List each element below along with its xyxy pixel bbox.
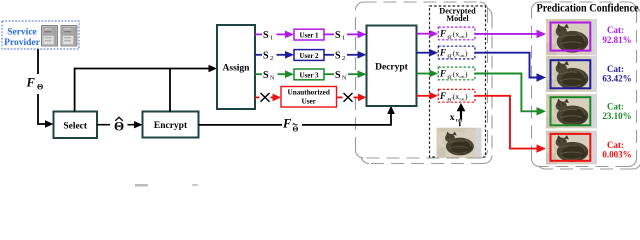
- arrowhead into Select: [45, 120, 54, 127]
- model row 3 box F_Theta-hat-N(x_cat): [438, 67, 475, 81]
- wire: Encrypt right to Decrypt bottom: [199, 113, 392, 125]
- server icon 2: [61, 26, 77, 47]
- prediction photo 3: [546, 94, 597, 128]
- box Decrypt: [367, 26, 417, 107]
- prediction photo 1: [546, 19, 597, 55]
- cropped caption remnant: [135, 184, 148, 187]
- box User 3: [294, 69, 324, 80]
- svg-text:F: F: [439, 48, 446, 58]
- svg-text:Service: Service: [7, 28, 37, 38]
- svg-text:23.10%: 23.10%: [602, 111, 631, 121]
- svg-text:2: 2: [342, 55, 345, 62]
- svg-text:User 1: User 1: [299, 32, 319, 40]
- svg-text:S: S: [263, 50, 269, 61]
- row 2 wire S2 from User 2 to Decrypt: [324, 50, 367, 62]
- prediction photo 4: [546, 131, 597, 165]
- svg-text:63.42%: 63.42%: [602, 73, 631, 83]
- prediction photo 2: [546, 56, 597, 92]
- svg-text:S: S: [335, 30, 341, 41]
- model row 4 box F_Theta-tilde(x_cat): [438, 89, 475, 103]
- svg-text:User 2: User 2: [299, 52, 319, 60]
- wire: Select to Theta-hat: [97, 124, 110, 126]
- server icon 1: [42, 26, 58, 47]
- svg-text:Select: Select: [63, 121, 88, 131]
- cat image in decrypted model: [437, 128, 482, 158]
- svg-text:Unauthorized: Unauthorized: [288, 89, 330, 97]
- svg-text:S: S: [335, 70, 341, 81]
- svg-text:S: S: [335, 50, 341, 61]
- row 3 wire SN from User 3 to Decrypt: [324, 70, 367, 82]
- svg-text:(x: (x: [453, 49, 460, 58]
- svg-text:Predication Confidence: Predication Confidence: [537, 0, 640, 14]
- row 1 wire S1 from User 1 to Decrypt: [324, 30, 367, 42]
- svg-text:F: F: [439, 69, 446, 79]
- group frame: prediction section back copy: [537, 7, 640, 169]
- wire Decrypt to model row 3: [417, 73, 431, 75]
- svg-text:Encrypt: Encrypt: [154, 121, 188, 131]
- group frame: decrypt section front copy: [356, 2, 488, 158]
- model row 2 box F_Theta-hat-2(x_cat): [438, 46, 475, 60]
- row 4 wire from Unauthorized User to Decrypt with cross: [337, 93, 367, 102]
- arrow x_cat up into model row 4: [460, 110, 462, 120]
- svg-text:0.003%: 0.003%: [602, 149, 631, 159]
- svg-text:N: N: [342, 75, 347, 81]
- svg-text:F: F: [282, 117, 292, 131]
- box Select: [54, 112, 98, 139]
- svg-text:Provider: Provider: [4, 38, 40, 48]
- wire: service provider down to Select: [38, 49, 46, 124]
- svg-text:(x: (x: [453, 70, 460, 79]
- row 1 wire S1 from Assign to User 1: [255, 30, 294, 42]
- svg-text:Cat:: Cat:: [607, 64, 624, 74]
- svg-text:Cat:: Cat:: [607, 140, 624, 150]
- group frame: prediction section front copy: [532, 2, 637, 167]
- svg-text:S: S: [263, 30, 269, 41]
- svg-text:Θ: Θ: [37, 83, 43, 92]
- svg-text:x: x: [450, 113, 455, 123]
- svg-text:Model: Model: [446, 14, 469, 23]
- wire model row 1 to prediction 1: [475, 33, 537, 35]
- row 3 wire SN from Assign to User 3: [255, 70, 294, 82]
- arrowhead up into Decrypt: [387, 106, 395, 115]
- svg-text:2: 2: [270, 55, 273, 62]
- bbox 3: [551, 97, 591, 125]
- wire Decrypt to model row 1: [417, 33, 431, 35]
- wire Decrypt to model row 2: [417, 52, 431, 54]
- svg-text:F: F: [439, 91, 446, 101]
- svg-text:92.81%: 92.81%: [602, 35, 631, 45]
- svg-text:User: User: [302, 97, 317, 105]
- wire model row 2 to prediction 2: [475, 53, 537, 78]
- label Theta-hat: [114, 117, 124, 133]
- model row 1 box F_Theta-hat-1(x_cat): [438, 27, 475, 41]
- svg-text:N: N: [270, 75, 275, 81]
- label F_Theta-tilde: [282, 117, 299, 134]
- wire: Select top and Encrypt top up to Assign: [75, 69, 209, 112]
- svg-text:(x: (x: [453, 92, 460, 101]
- wire model row 3 to prediction 3: [475, 74, 537, 112]
- bbox 4: [551, 134, 591, 161]
- wire Decrypt to model row 4: [417, 95, 431, 97]
- service provider box: [2, 21, 79, 49]
- svg-text:1: 1: [342, 35, 345, 42]
- svg-text:1: 1: [270, 35, 273, 42]
- svg-text:User 3: User 3: [299, 71, 319, 79]
- group frame: decrypt section back copy: [361, 8, 492, 164]
- arrowhead into Assign: [209, 65, 218, 72]
- svg-text:Assign: Assign: [223, 64, 251, 74]
- label F_Theta: [26, 76, 44, 92]
- svg-text:F: F: [439, 29, 446, 39]
- svg-text:Cat:: Cat:: [607, 25, 624, 35]
- bbox 2: [551, 60, 591, 88]
- bbox 1: [551, 23, 591, 51]
- wire+arrow: Theta-hat to Encrypt: [128, 124, 136, 126]
- decrypted model dashed container: [430, 6, 486, 157]
- box Assign: [217, 25, 255, 109]
- tiny wire from x_cat to cat image: [459, 122, 461, 127]
- box User 1: [294, 29, 324, 40]
- box Encrypt: [143, 112, 199, 138]
- svg-text:Θ: Θ: [293, 125, 299, 134]
- box Unauthorized User: [281, 87, 337, 108]
- row 4 wire from Assign with cross: [255, 93, 281, 102]
- svg-text:F: F: [26, 76, 36, 90]
- svg-text:(x: (x: [453, 30, 460, 39]
- svg-text:S: S: [263, 70, 269, 81]
- wire model row 4 to prediction 4: [475, 96, 537, 149]
- svg-text:Decrypt: Decrypt: [375, 63, 409, 73]
- label x_cat: [450, 113, 463, 124]
- box User 2: [294, 50, 324, 61]
- row 2 wire S2 from Assign to User 2: [255, 50, 294, 62]
